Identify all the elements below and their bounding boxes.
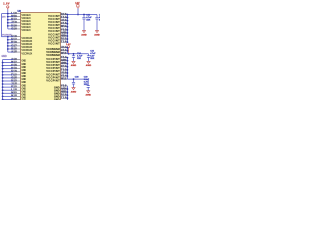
junction GND bus y93.3 [2, 92, 4, 94]
junction C38 on rail [73, 78, 75, 80]
wire VCCPAUX stub y42.8 [8, 42, 14, 44]
svg-text:AGND: AGND [86, 94, 92, 97]
junction VCCAUX bus y16.7 [7, 16, 9, 18]
junction VCCPINT bus y66.8 [67, 66, 69, 68]
wire VCCBRAM rail y53.7 [67, 53, 88, 55]
junction VCCINT bus y26.8 [67, 26, 69, 28]
junction GND bus y99.4 [2, 99, 4, 101]
svg-text:C38: C38 [75, 77, 80, 79]
pin R14 (VCCPINT) right stub [61, 66, 68, 68]
wire GND stub y74.8 [3, 74, 14, 76]
pin R18 (GND) right stub [61, 94, 68, 96]
svg-text:1V8: 1V8 [2, 16, 5, 18]
junction GND bus y90.2 [2, 89, 4, 91]
junction VCCINT bus y42.1 [67, 41, 69, 43]
junction right GND bus y92.0 [67, 91, 69, 93]
pin M18 (VCCAUX) left stub [14, 16, 21, 18]
wire VCCPAUX stub y52.1 [8, 51, 14, 53]
junction GND bus y96.3 [2, 95, 4, 97]
pin B18 (VCCPAUX) left stub [14, 48, 21, 50]
pin T16 (VCCINT) right stub [61, 41, 68, 43]
pin E15 (GND) left stub [14, 71, 21, 73]
svg-text:X5R: X5R [99, 19, 100, 21]
wire VCCPAUX stub y39.8 [8, 39, 14, 41]
junction VCCINT bus y20.6 [67, 20, 69, 22]
svg-text:VCCBRAM: VCCBRAM [46, 53, 60, 57]
wire VCCPINT bus vertical [66, 58, 68, 79]
wire VCCAUX bus vertical x7.8 [7, 14, 9, 29]
pin Y16 (GND) right stub [61, 85, 68, 87]
wire VCCPAUX stub y49.0 [8, 48, 14, 50]
wire VCCAUX row1 horizontal [2, 13, 14, 15]
svg-text:VCCINT: VCCINT [48, 41, 60, 45]
pin V12 (VCCBRAM) right stub [61, 50, 68, 52]
capacitor C31 4.7uF [83, 15, 85, 18]
pin J15 (GND) left stub [14, 83, 21, 85]
power port 1.2V symbol [77, 5, 79, 7]
svg-text:VCCPAUX: VCCPAUX [21, 52, 32, 55]
wire GND stub y84.1 [3, 83, 14, 85]
svg-text:W16: W16 [61, 52, 67, 55]
junction GND bus y71.8 [2, 71, 4, 73]
pin W14 (VCCINT) right stub [61, 26, 68, 28]
wire GND stub y71.8 [3, 71, 14, 73]
junction C31 on rail [83, 14, 85, 16]
wire GND stub y59.5 [3, 59, 14, 61]
ground symbol below C39 [86, 90, 90, 92]
junction VCCPINT bus y69.9 [67, 69, 69, 71]
ground symbol below C38 [72, 87, 76, 89]
svg-text:VCCPAUX: VCCPAUX [2, 33, 12, 36]
wire VCCINT rail y14.5 [67, 14, 97, 16]
wire right GND bus vertical [66, 86, 68, 100]
wire GND stub y87.1 [3, 86, 14, 88]
wire VCCINT bus vertical x67.4 [66, 15, 68, 43]
junction C34 on rail [73, 53, 75, 55]
ground symbol below C33 [87, 60, 91, 62]
ground symbol below C34 [72, 60, 76, 62]
pin F13 (GND) left stub [14, 74, 21, 76]
junction GND bus y74.8 [2, 74, 4, 76]
svg-text:AGND: AGND [71, 64, 77, 67]
junction VCCINT bus y32.9 [67, 32, 69, 34]
pin H13 (GND) left stub [14, 80, 21, 82]
pin AB14 (VCCINT) right stub [61, 35, 68, 37]
pin G15 (GND) left stub [14, 77, 21, 79]
junction VCCAUX bus y19.7 [7, 19, 9, 21]
power port 1.0V stem wire [68, 48, 70, 54]
wire GND stub y96.3 [3, 95, 14, 97]
junction VCCPINT bus y73.0 [67, 72, 69, 74]
wire VCCAUX stub y22.8 [8, 22, 14, 24]
pin AA16 (VCCINT) right stub [61, 32, 68, 34]
junction VCCPINT bus y57.6 [67, 57, 69, 59]
wire 1.2V drop [77, 8, 79, 14]
junction GND bus y68.7 [2, 68, 4, 70]
pin D19 (VCCPAUX) left stub [14, 42, 21, 44]
pin V16 (VCCINT) right stub [61, 23, 68, 25]
capacitor C38 4.7uF [73, 79, 75, 82]
wire GND stub y90.2 [3, 89, 14, 91]
junction right GND bus y89.0 [67, 88, 69, 90]
pin P13 (GND) left stub [14, 98, 21, 100]
junction VCCPINT bus y60.7 [67, 60, 69, 62]
junction VCCAUX bus y22.8 [7, 22, 9, 24]
wire VCCAUX stub y28.9 [8, 28, 14, 30]
svg-text:X5R: X5R [86, 19, 91, 21]
power port 1.8V symbol [7, 6, 9, 8]
junction right GND bus y98.2 [67, 97, 69, 99]
pin U12 (VCCINT) right stub [61, 20, 68, 22]
junction GND bus y77.9 [2, 77, 4, 79]
wire VCCPAUX stub y45.9 [8, 45, 14, 47]
pin Y12 (VCCINT) right stub [61, 29, 68, 31]
pin Y14 (VCCPINT) right stub [61, 57, 68, 59]
junction VCCPAUX tee [7, 36, 9, 38]
wire VCCPINT rail y79.1 [67, 78, 88, 80]
power port 1.0V symbol [68, 46, 70, 48]
pin AB16 (VCCPINT) right stub [61, 63, 68, 65]
pin W12 (VCCPINT) right stub [61, 78, 68, 80]
junction VCCPAUX bus y39.8 [7, 39, 9, 41]
wire VCCAUX stub y19.7 [8, 19, 14, 21]
pin M13 (GND) left stub [14, 92, 21, 94]
pin AA14 (GND) right stub [61, 88, 68, 90]
junction VCCINT bus y36.0 [67, 35, 69, 37]
junction VCCBRAM bus y47.6 [67, 47, 69, 49]
junction VCCINT bus y29.9 [67, 29, 69, 31]
svg-text:X5R: X5R [90, 58, 95, 60]
pin AB12 (GND) right stub [61, 91, 68, 93]
pin C15 (GND) left stub [14, 65, 21, 67]
pin K17 (VCCAUX) left stub [14, 19, 21, 21]
junction GND bus y87.1 [2, 86, 4, 88]
pin T18 (GND) right stub [61, 97, 68, 99]
wire left rail x1.5 down to VCCPAUX [1, 14, 3, 37]
junction VCCPINT bus y76.0 [67, 75, 69, 77]
pin F18 (VCCPAUX) left stub [14, 36, 21, 38]
pin E17 (VCCPAUX) left stub [14, 39, 21, 41]
junction GND bus y84.1 [2, 83, 4, 85]
pin T12 (VCCPINT) right stub [61, 69, 68, 71]
ground symbol below C31 [82, 30, 86, 32]
junction VCCINT bus y14.5 [67, 14, 69, 16]
wire GND stub y81.0 [3, 80, 14, 82]
junction VCCPAUX bus y45.9 [7, 45, 9, 47]
svg-text:VCCAUX: VCCAUX [21, 29, 31, 32]
svg-text:W12: W12 [61, 77, 67, 80]
wire 1.8V vertical drop [7, 9, 9, 13]
pin C17 (VCCPAUX) left stub [14, 45, 21, 47]
pin A19 (GND) left stub [14, 59, 21, 61]
pin U16 (VCCPINT) right stub [61, 72, 68, 74]
capacitor C34 4.7uF [73, 54, 75, 56]
svg-text:X5R: X5R [77, 58, 82, 60]
ground symbol below C32 [95, 30, 99, 32]
junction right GND bus y95.1 [67, 94, 69, 96]
svg-text:GND: GND [2, 56, 7, 58]
pin H19 (VCCAUX) left stub [14, 25, 21, 27]
wire VCCAUX stub y16.7 [8, 16, 14, 18]
junction at 1.8V tee [7, 13, 9, 15]
junction VCCINT bus y17.6 [67, 17, 69, 19]
pin W16 (VCCBRAM) right stub [61, 53, 68, 55]
svg-text:AGND: AGND [81, 33, 87, 36]
pin L19 (VCCAUX) left stub [14, 13, 21, 15]
wire VCCAUX stub y25.9 [8, 25, 14, 27]
junction GND bus y65.6 [2, 65, 4, 67]
wire GND stub y99.4 [3, 98, 14, 100]
pin R12 (VCCINT) right stub [61, 38, 68, 40]
wire GND bus vertical x2.6 [2, 60, 4, 101]
svg-text:VCCPINT: VCCPINT [46, 78, 60, 82]
svg-text:GND: GND [54, 98, 60, 100]
svg-text:AGND: AGND [71, 90, 77, 93]
junction VCCPAUX bus y42.8 [7, 42, 9, 44]
wire VCCBRAM bus vertical [66, 48, 68, 54]
pin U14 (VCCBRAM) right stub [61, 47, 68, 49]
pin V14 (VCCPINT) right stub [61, 75, 68, 77]
pin K13 (GND) left stub [14, 86, 21, 88]
pin N15 (GND) left stub [14, 95, 21, 97]
pin J19 (VCCAUX) left stub [14, 22, 21, 24]
junction 1.2V on VCCINT rail [77, 14, 79, 16]
capacitor C39 0.1uF [87, 79, 89, 86]
pin A15 (VCCPAUX) left stub [14, 51, 21, 53]
junction VCCINT bus y39.1 [67, 38, 69, 40]
svg-text:AGND: AGND [86, 64, 92, 67]
capacitor C32 4.7uF [96, 15, 98, 18]
svg-text:X5R: X5R [84, 84, 89, 86]
svg-text:AGND: AGND [94, 33, 100, 36]
junction 1.0V on VCCBRAM rail [68, 53, 70, 55]
svg-text:1.8V: 1.8V [3, 3, 10, 6]
power port 1.8V stem [7, 8, 9, 10]
pin R16 (VCCINT) right stub [61, 14, 68, 16]
power port 1.2V stem [77, 7, 79, 9]
pin AA12 (VCCPINT) right stub [61, 60, 68, 62]
pin T14 (VCCINT) right stub [61, 17, 68, 19]
wire GND stub y77.9 [3, 77, 14, 79]
junction GND bus y81.0 [2, 80, 4, 82]
pin B17 (GND) left stub [14, 62, 21, 64]
wire VCCPAUX row1 horizontal [2, 36, 14, 38]
wire GND stub y62.6 [3, 62, 14, 64]
svg-text:T18: T18 [61, 97, 67, 100]
pin L15 (GND) left stub [14, 89, 21, 91]
junction VCCBRAM bus y50.7 [67, 50, 69, 52]
junction VCCPINT bus y63.7 [67, 63, 69, 65]
junction VCCINT bus y23.7 [67, 23, 69, 25]
wire GND stub y68.7 [3, 68, 14, 70]
junction VCCAUX bus y25.9 [7, 25, 9, 27]
wire GND stub y65.6 [3, 65, 14, 67]
wire GND stub y93.3 [3, 92, 14, 94]
wire VCCPAUX bus vertical [7, 37, 9, 52]
junction VCCPAUX bus y49.0 [7, 48, 9, 50]
junction GND bus y62.6 [2, 62, 4, 64]
pin D13 (GND) left stub [14, 68, 21, 70]
capacitor C33 4.7uF [88, 54, 90, 56]
svg-text:U8: U8 [18, 9, 22, 13]
pin G19 (VCCAUX) left stub [14, 28, 21, 30]
IC body U8 (FPGA power pins) [21, 13, 61, 101]
